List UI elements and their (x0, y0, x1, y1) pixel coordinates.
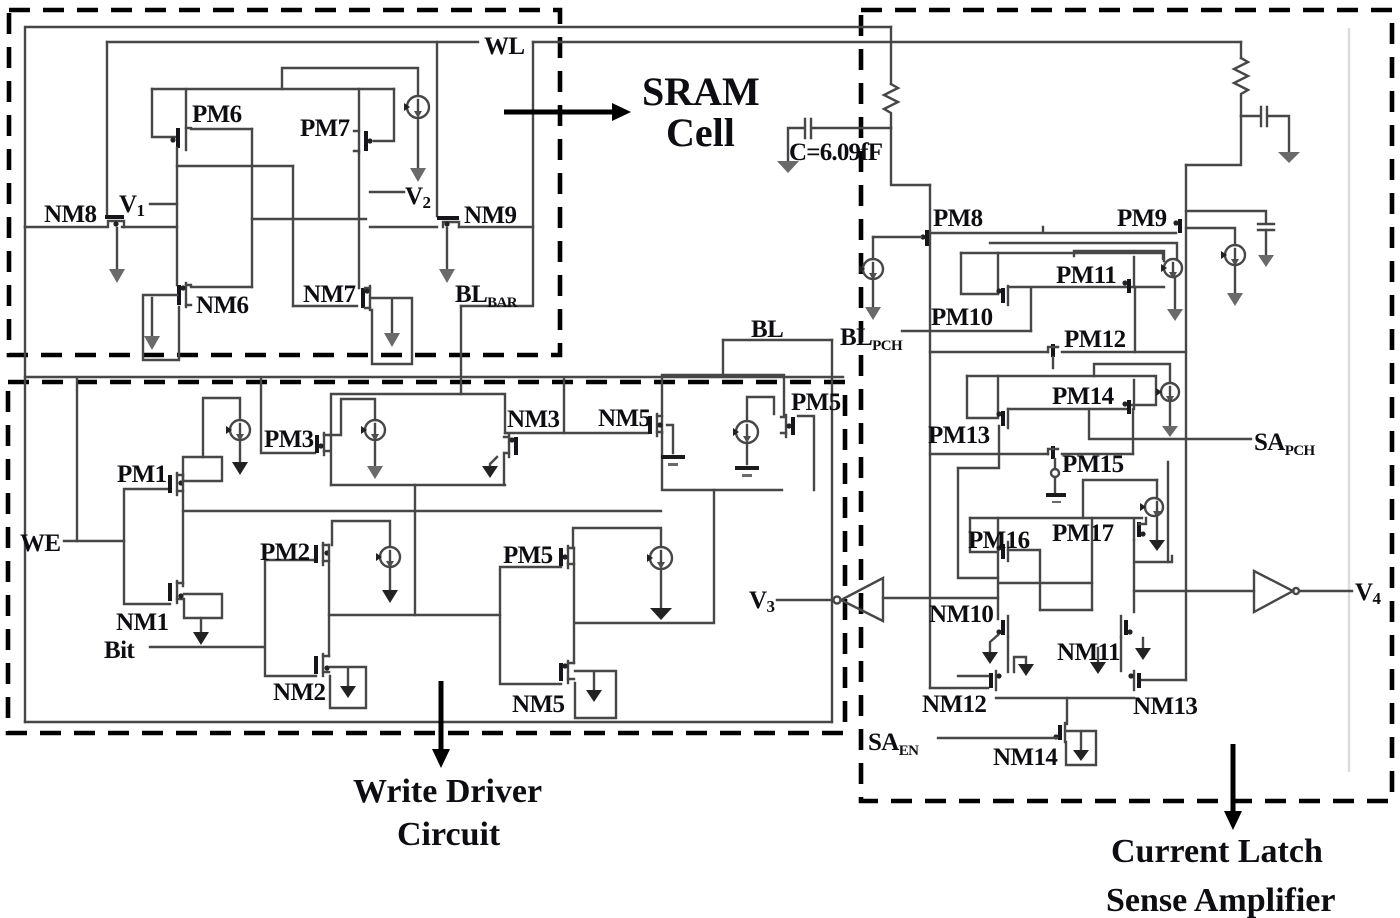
svg-text:Cell: Cell (666, 110, 735, 155)
wire PM6 top loop (282, 68, 418, 95)
wire PM15 row (930, 453, 1133, 455)
transistor NM3 (504, 435, 516, 457)
svg-text:PM9: PM9 (1117, 205, 1167, 232)
inverter V4 (1254, 571, 1299, 612)
current source I9 (1163, 253, 1183, 321)
wire NM3 gate rail (505, 432, 648, 434)
transistor PM2 (316, 543, 330, 565)
transistor NM5 top (650, 414, 663, 436)
transistor NM14 (1053, 723, 1065, 742)
ground arrow NM3 bulk (482, 457, 498, 478)
ground bar I5 (735, 443, 759, 477)
transistor PM5 top (781, 415, 793, 437)
wire WL riser to NM9 gate (436, 42, 438, 216)
contact box above PM1 (183, 457, 222, 481)
arrow to Current Latch Sense Amplifier (1224, 744, 1242, 830)
wire PM8 PM9 top rail (932, 227, 1176, 233)
wire write driver top rail (25, 376, 843, 378)
transistor NM1 (170, 581, 184, 603)
wire latch top rail (152, 88, 394, 90)
wire CLSA left column (929, 185, 931, 688)
current source arrow ticks (226, 103, 1227, 562)
wire tail rail (996, 697, 1134, 699)
wire cross couple row lower (1040, 609, 1092, 611)
svg-text:NM3: NM3 (507, 406, 559, 433)
wire V3 lead (777, 599, 833, 601)
transistor NM13 (1128, 671, 1139, 690)
ground arrow NM10 bulk (982, 635, 998, 664)
wire NM8 source row (25, 226, 106, 228)
current source I8 (1186, 228, 1245, 306)
wire rect B channel column (358, 153, 360, 288)
wire PM16 loop left (970, 518, 998, 619)
transistor PM12 (1048, 344, 1058, 368)
wire cross coupling lower (252, 218, 366, 220)
wire PM13 loop left (967, 376, 998, 418)
inverter V3 (834, 578, 884, 621)
ground arrow I4 (367, 440, 383, 479)
wire PM12 row (930, 351, 1186, 353)
svg-text:Bit: Bit (104, 637, 135, 664)
ground arrow NM1 (193, 618, 209, 645)
svg-text:NM7: NM7 (303, 281, 355, 308)
wire rect B bottom (293, 305, 357, 307)
svg-text:PM5: PM5 (503, 542, 553, 569)
wire V4 row (1134, 590, 1254, 592)
wire PM5 mid gate loop (573, 528, 661, 548)
wire PM1 NM1 inverter gate bar frame (124, 489, 170, 604)
wire PM10 loop left (961, 253, 998, 294)
transistor PM10 (996, 286, 1008, 305)
transistor NM12 (991, 671, 1002, 690)
svg-text:PM10: PM10 (931, 304, 993, 331)
wire PM16 PM17 box top (1083, 480, 1157, 518)
wire PM13 drain drop (958, 426, 999, 468)
wire PM17 cell right edge (1167, 462, 1169, 562)
transistor PM9 (1173, 219, 1180, 233)
svg-text:C=6.09fF: C=6.09fF (789, 139, 883, 166)
wire PM17 channel column (1133, 540, 1135, 612)
svg-text:WE: WE (20, 530, 60, 557)
scan artifact light vertical line (1348, 28, 1351, 772)
current source I2 (230, 420, 250, 441)
wire PM16 PM17 row (970, 517, 1142, 519)
ground bar NM5 top (661, 425, 685, 466)
wire PM6 gate feed (152, 89, 176, 137)
resistor R1 (884, 27, 898, 128)
wire short stub under top rail (990, 243, 1177, 259)
svg-text:NM14: NM14 (993, 744, 1058, 771)
wire latch rect A left (176, 148, 178, 285)
wire BLBAR drop to write driver (460, 306, 462, 394)
svg-text:SRAM: SRAM (642, 69, 760, 114)
wire cross couple row upper (1000, 582, 1092, 584)
svg-text:PM11: PM11 (1056, 262, 1116, 289)
ground arrow I6 (650, 569, 672, 620)
svg-text:PM5: PM5 (791, 389, 841, 416)
wire NM3 box to output row (414, 485, 416, 615)
dashed box Write Driver Circuit (8, 382, 845, 733)
dashed box Current Latch Sense Amplifier (861, 10, 1392, 801)
svg-text:PM7: PM7 (300, 115, 350, 142)
wire PM15 gate stem with bubble (1046, 459, 1066, 503)
wire PM3 gate riser (261, 379, 315, 453)
wire BL right column (831, 340, 833, 722)
svg-text:NM8: NM8 (44, 201, 96, 228)
wire PM7 gate feed (374, 89, 394, 141)
wire PM6 drain lead (191, 128, 252, 130)
wire PM11 gate rail (1074, 251, 1164, 261)
transistor NM2 (316, 654, 330, 676)
wire PM3 source loop (330, 399, 375, 435)
transistor PM13 (996, 409, 1008, 428)
ground step NM12 (1014, 657, 1034, 676)
wire PM5 top gate loop (747, 397, 774, 421)
wire R1 node down to PM8 column (891, 128, 930, 185)
transistor PM16 (996, 542, 1008, 561)
wire PM12 right column (1134, 287, 1136, 352)
wire NM3 drain drop (503, 455, 505, 485)
wire PM10 PM11 row top (961, 252, 1163, 254)
ground arrow I2 (232, 440, 248, 475)
current source I7 (863, 237, 883, 320)
wire NM8 drain to latch (122, 226, 177, 228)
svg-text:PM1: PM1 (117, 461, 167, 488)
dashed box SRAM cell (9, 10, 560, 355)
wire WL left segment (107, 41, 478, 43)
wire VDD rail left (vertical) and top rail (25, 27, 891, 227)
svg-text:NM9: NM9 (464, 202, 516, 229)
wire latch rect A right (251, 129, 253, 287)
transistor NM11 (1121, 616, 1133, 637)
arrow to SRAM Cell (504, 103, 631, 121)
wire NM3 stage riser (563, 379, 565, 433)
svg-text:NM13: NM13 (1133, 693, 1197, 720)
svg-text:WL: WL (484, 33, 524, 60)
svg-text:NM5: NM5 (512, 691, 564, 718)
wire R2 node to PM9 column (1186, 116, 1241, 165)
wire PM14 row bottom (1008, 408, 1128, 410)
svg-text:PM13: PM13 (928, 422, 990, 449)
wire SAEN (938, 737, 1057, 739)
wire PM1 output column (182, 475, 184, 586)
wire cross coupling upper (177, 165, 293, 167)
wire CLSA right column (1185, 165, 1187, 680)
svg-text:NM10: NM10 (929, 601, 993, 628)
current source I11 (1135, 480, 1172, 562)
wire write driver VDD rail left (24, 227, 26, 722)
wire NM12 cross couple (958, 675, 988, 677)
transistor NM10 (996, 616, 1008, 637)
transistor NM6 (179, 283, 191, 307)
wire rect A bottom (191, 286, 252, 288)
transistor PM6 (170, 89, 191, 150)
svg-text:NM6: NM6 (196, 292, 248, 319)
svg-text:PM12: PM12 (1064, 326, 1126, 353)
wire NM13 gate from right column (1142, 679, 1186, 681)
current source I1 (407, 96, 429, 118)
wire PM9 node right with cap C3 (1186, 211, 1274, 267)
wire NM9 drain to BLBAR column (459, 226, 533, 228)
wire PM17 left column (1091, 518, 1093, 610)
svg-text:PM17: PM17 (1052, 520, 1114, 547)
transistor PM5 mid (561, 546, 574, 568)
wire inverter2 output row (329, 614, 500, 616)
wire PM13 top loop (1094, 364, 1170, 382)
wire BLPCH row (902, 330, 1031, 332)
svg-text:NM1: NM1 (116, 609, 168, 636)
svg-text:NM11: NM11 (1057, 639, 1120, 666)
wire WE riser (76, 379, 78, 541)
transistor PM15 (1048, 446, 1058, 459)
svg-text:Write Driver: Write Driver (353, 773, 542, 810)
transistor PM3 (317, 433, 330, 455)
svg-text:NM2: NM2 (273, 679, 325, 706)
wire rect B left (292, 166, 294, 306)
wire PM10 drain drop to BLPCH (1030, 289, 1032, 331)
wire V3 row into latch (883, 597, 998, 599)
wire NM3 box bottom (331, 484, 505, 486)
wire PM16 output column (1008, 550, 1040, 610)
svg-text:BL: BL (751, 316, 783, 343)
wire V2 lead from PM7 (370, 191, 404, 193)
transistor NM8 (105, 217, 124, 227)
svg-text:PM2: PM2 (260, 539, 310, 566)
wire I1 to V2 arrow (417, 118, 419, 168)
wire NM10 NM12 column (1007, 637, 1009, 672)
wire WL riser to NM8 gate (106, 42, 108, 216)
transistor PM7 (354, 89, 373, 153)
svg-text:NM12: NM12 (922, 691, 986, 718)
svg-text:PM6: PM6 (192, 101, 242, 128)
wire PM8 gate lead (873, 236, 921, 238)
wire PM13 PM14 row top (967, 376, 1156, 405)
current source I5 (736, 421, 758, 443)
wire WL right segment (533, 41, 1241, 43)
wire write driver bottom rail (25, 721, 832, 723)
wire stage1 output drop (575, 490, 714, 623)
wire SAPCH (1089, 409, 1251, 439)
ground arrow NM13 area (1135, 638, 1151, 660)
svg-text:Current Latch: Current Latch (1111, 833, 1323, 870)
wire PM11 row bottom (1008, 286, 1164, 288)
transistor NM7 (363, 286, 370, 310)
arrow to Write Driver Circuit (432, 681, 450, 768)
svg-text:PM14: PM14 (1052, 383, 1115, 410)
wire NM12 source to rail (930, 687, 988, 689)
wire V1 stub (150, 203, 177, 205)
wire Bit (150, 646, 263, 648)
wire NM11 NM13 column (1120, 637, 1122, 671)
ground arrow V2 node (410, 168, 426, 182)
wire NM5 stage box (662, 375, 784, 433)
wire tail drop to NM14 (1066, 698, 1068, 724)
wire PM5 NM5 inverter gate frame (500, 567, 561, 684)
wire BL horizontal (723, 339, 832, 341)
contact box below NM1 (184, 594, 222, 618)
wire PM5 mid output column (573, 548, 575, 663)
wire PM2 output column (328, 545, 330, 656)
transistor PM8 (920, 230, 927, 246)
transistor PM14 (1122, 380, 1134, 414)
capacitor C2 (1241, 107, 1300, 163)
svg-text:Sense Amplifier: Sense Amplifier (1106, 882, 1335, 918)
wire NM9 source row (370, 226, 437, 228)
ground arrow NM11 bulk (1090, 648, 1106, 674)
wire V4 lead (1299, 590, 1352, 592)
svg-text:PM3: PM3 (264, 426, 314, 453)
svg-text:PM15: PM15 (1062, 451, 1124, 478)
resistor R2 (1234, 42, 1248, 116)
ground box NM7 (372, 298, 412, 364)
transistor NM9 (437, 218, 459, 227)
ground arrow I3 (382, 567, 398, 603)
wire NM3 box outline (331, 394, 505, 485)
ground arrow NM8 bulk (109, 228, 125, 283)
ground box NM14 (1066, 731, 1096, 765)
wire PM15 right column (1132, 409, 1134, 454)
transistor PM1 (170, 473, 184, 495)
svg-text:Circuit: Circuit (397, 816, 501, 853)
wire PM16 gate column (958, 468, 998, 578)
current source I10 (1161, 383, 1179, 437)
wire PM2 NM2 inverter gate frame (265, 560, 316, 676)
wire NM5 stage box left lower (662, 433, 782, 490)
wire BL left drop into stage (722, 340, 724, 375)
wire BLBAR column (461, 42, 533, 306)
wire WE lead (64, 540, 124, 542)
ground box NM5 bottom (575, 671, 616, 718)
wire PM5 top drain (798, 416, 814, 490)
ground box NM6 (143, 295, 179, 360)
transistor PM17 (1134, 518, 1146, 540)
svg-text:NM5: NM5 (598, 405, 650, 432)
wire I2 feed (203, 398, 240, 457)
capacitor C1 C=6.09fF (777, 119, 891, 173)
transistor PM11 (1122, 257, 1134, 293)
transistor NM5 bottom (561, 661, 574, 683)
current source I4 (365, 420, 385, 441)
current source I6 (650, 547, 672, 569)
wire PM2 gate loop to I3 (332, 521, 390, 546)
svg-text:PM8: PM8 (933, 205, 983, 232)
wire inverter1 output long (183, 510, 661, 512)
ground box NM2 (330, 667, 366, 708)
current source I3 (380, 547, 400, 568)
ground arrow NM9 bulk (439, 228, 455, 283)
